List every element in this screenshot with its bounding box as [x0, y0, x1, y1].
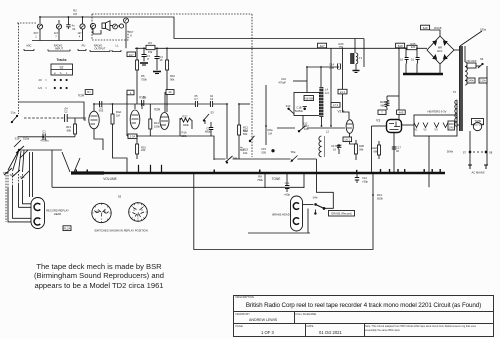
svg-text:R2: R2	[73, 9, 77, 13]
svg-text:S4a: S4a	[233, 156, 238, 160]
svg-text:RECORD REPLAY: RECORD REPLAY	[46, 209, 69, 213]
svg-text:S13: S13	[286, 104, 291, 108]
svg-text:R3: R3	[148, 41, 152, 45]
svg-text:240v: 240v	[468, 79, 474, 83]
svg-text:1M: 1M	[116, 113, 120, 117]
svg-text:=: =	[45, 79, 47, 82]
svg-text:C10: C10	[281, 77, 286, 81]
svg-text:V3: V3	[376, 119, 380, 123]
svg-text:b: b	[141, 208, 143, 212]
svg-text:S1b: S1b	[15, 137, 20, 141]
svg-text:a: a	[133, 209, 135, 212]
svg-text:4A5: 4A5	[399, 111, 404, 115]
svg-text:c: c	[101, 218, 103, 221]
svg-text:1/4: 1/4	[325, 91, 329, 95]
svg-text:R13: R13	[66, 125, 71, 129]
svg-text:005: 005	[330, 66, 335, 70]
svg-text:183a: 183a	[480, 28, 486, 32]
svg-text:2-3A: 2-3A	[130, 135, 136, 139]
svg-text:240: 240	[449, 125, 454, 129]
svg-text:L1: L1	[116, 44, 119, 48]
svg-text:02: 02	[396, 149, 399, 153]
svg-text:HEATERS 6-3V: HEATERS 6-3V	[428, 110, 447, 114]
svg-text:4n: 4n	[72, 24, 75, 28]
svg-text:S7: S7	[463, 151, 467, 155]
svg-text:W1A8: W1A8	[434, 26, 442, 30]
svg-text:21:1: 21:1	[340, 90, 346, 94]
svg-text:C14: C14	[329, 63, 334, 67]
svg-text:6K7: 6K7	[129, 30, 134, 34]
svg-text:AC MAINS: AC MAINS	[472, 171, 485, 175]
svg-text:470pF: 470pF	[278, 80, 286, 84]
svg-text:EC1: EC1	[437, 49, 443, 53]
svg-text:R24: R24	[380, 100, 385, 104]
svg-text:750k: 750k	[141, 77, 147, 81]
svg-text:R1: R1	[87, 90, 91, 94]
svg-text:16: 16	[400, 58, 403, 62]
svg-text:T2: T2	[453, 90, 457, 94]
svg-text:4: 4	[79, 34, 81, 38]
svg-text:V1: V1	[414, 128, 418, 132]
svg-text:500Mu: 500Mu	[295, 109, 304, 113]
svg-text:TONE: TONE	[272, 177, 281, 181]
svg-text:4A7: 4A7	[320, 44, 325, 48]
svg-text:V2 B: V2 B	[338, 110, 345, 114]
svg-text:BRAKE HEAD: BRAKE HEAD	[272, 213, 289, 217]
svg-text:90k: 90k	[170, 77, 175, 81]
svg-text:L6:1: L6:1	[345, 138, 351, 142]
svg-text:Tracks: Tracks	[56, 58, 66, 62]
svg-text:R20: R20	[339, 42, 344, 46]
svg-text:R13: R13	[243, 129, 248, 133]
svg-text:C6: C6	[143, 96, 147, 100]
svg-text:50Hz: 50Hz	[447, 150, 454, 154]
svg-text:5A8: 5A8	[398, 44, 403, 48]
svg-text:500k: 500k	[377, 196, 383, 200]
svg-text:R25: R25	[411, 42, 416, 46]
svg-text:16: 16	[411, 58, 414, 62]
svg-text:R26: R26	[449, 122, 454, 126]
svg-text:=: =	[45, 87, 47, 90]
svg-text:.04: .04	[64, 107, 68, 111]
svg-text:15k: 15k	[148, 50, 153, 54]
svg-text:L7:1: L7:1	[333, 103, 339, 107]
svg-text:S4b: S4b	[313, 196, 318, 200]
svg-text:S6: S6	[480, 57, 484, 61]
svg-text:16: 16	[333, 148, 336, 152]
svg-text:R14: R14	[154, 121, 159, 125]
svg-text:R4A: R4A	[116, 110, 121, 114]
svg-text:R28: R28	[359, 144, 364, 148]
svg-text:S3: S3	[210, 111, 214, 115]
svg-text:50k: 50k	[243, 132, 248, 136]
svg-text:820k: 820k	[183, 123, 189, 127]
svg-text:S2: S2	[60, 66, 64, 70]
svg-text:68k: 68k	[67, 128, 72, 132]
svg-text:1k7: 1k7	[54, 31, 59, 35]
svg-text:R17: R17	[304, 124, 309, 128]
svg-text:16: 16	[160, 58, 163, 62]
svg-text:7: 7	[55, 34, 57, 38]
svg-text:680p: 680p	[205, 130, 211, 134]
svg-text:220: 220	[411, 45, 416, 49]
svg-text:S8: S8	[489, 151, 493, 155]
svg-text:470Mu: 470Mu	[40, 139, 49, 143]
svg-text:C1: C1	[42, 130, 46, 134]
svg-text:MIC: MIC	[27, 44, 32, 48]
svg-text:TAPE: TAPE	[474, 119, 481, 123]
svg-text:V1A: V1A	[78, 94, 85, 98]
svg-text:V2: V2	[423, 128, 427, 132]
svg-text:V3: V3	[434, 128, 438, 132]
svg-text:1M: 1M	[268, 131, 272, 135]
svg-text:C15: C15	[261, 147, 266, 151]
svg-text:INPUT: INPUT	[55, 47, 63, 51]
svg-text:MR: MR	[438, 46, 442, 50]
svg-text:005: 005	[262, 150, 267, 154]
svg-text:R27: R27	[183, 115, 188, 119]
svg-text:S5a: S5a	[291, 150, 296, 154]
svg-text:PU: PU	[82, 44, 86, 48]
svg-text:C12: C12	[362, 176, 367, 180]
svg-text:10k: 10k	[243, 151, 248, 155]
svg-text:100k: 100k	[154, 124, 160, 128]
svg-text:05: 05	[195, 94, 198, 98]
svg-text:750k: 750k	[257, 178, 263, 182]
svg-text:S1a: S1a	[11, 111, 16, 115]
svg-text:+50p: +50p	[362, 179, 369, 183]
svg-text:L2: L2	[326, 130, 329, 134]
svg-text:1/4: 1/4	[38, 86, 42, 90]
svg-text:R19: R19	[243, 148, 248, 152]
svg-text:20: 20	[39, 78, 42, 82]
svg-text:S2a: S2a	[10, 173, 15, 177]
svg-text:22k: 22k	[141, 148, 146, 152]
svg-text:VOLUME: VOLUME	[103, 177, 116, 181]
svg-text:ERASE (Record): ERASE (Record)	[331, 212, 351, 216]
svg-text:c: c	[137, 217, 139, 220]
svg-text:HEAD: HEAD	[54, 212, 62, 216]
svg-text:R5: R5	[141, 74, 145, 78]
svg-text:P1a: P1a	[3, 171, 8, 175]
svg-text:100: 100	[304, 127, 309, 131]
svg-text:MOTOR: MOTOR	[473, 122, 483, 126]
svg-text:6K7: 6K7	[34, 31, 39, 35]
svg-text:R6a: R6a	[268, 128, 273, 132]
svg-text:04: 04	[210, 94, 213, 98]
svg-text:.04: .04	[72, 27, 76, 31]
svg-text:005: 005	[99, 109, 104, 113]
svg-text:C11: C11	[285, 181, 290, 185]
svg-text:1M: 1M	[73, 12, 77, 16]
svg-text:SWITCHES SHOWN IN REPLAY POSIT: SWITCHES SHOWN IN REPLAY POSITION	[94, 229, 147, 233]
svg-text:75k: 75k	[339, 45, 344, 49]
svg-text:R8: R8	[258, 175, 262, 179]
svg-text:2A7: 2A7	[129, 53, 134, 57]
svg-text:4A: 4A	[168, 90, 171, 94]
svg-text:220k: 220k	[181, 134, 187, 138]
svg-text:R10: R10	[170, 74, 175, 78]
svg-text:S10a: S10a	[23, 137, 30, 141]
svg-text:C17: C17	[396, 146, 401, 150]
svg-text:b: b	[104, 209, 106, 213]
svg-text:ELEC: ELEC	[371, 146, 378, 150]
svg-text:1k7: 1k7	[77, 31, 82, 35]
svg-text:110v: 110v	[480, 79, 486, 83]
svg-text:+60p: +60p	[284, 193, 291, 197]
svg-text:L4: L4	[325, 88, 328, 92]
svg-text:S3: S3	[118, 195, 122, 199]
svg-text:V2A: V2A	[154, 108, 161, 112]
svg-text:680: 680	[381, 103, 386, 107]
svg-text:6A8: 6A8	[423, 26, 428, 30]
svg-text:8: 8	[130, 33, 132, 37]
svg-text:T1: T1	[359, 56, 363, 60]
svg-text:39k: 39k	[359, 148, 364, 152]
svg-text:RL2A: RL2A	[64, 227, 71, 231]
svg-text:680: 680	[374, 149, 379, 153]
svg-text:C17: C17	[331, 144, 336, 148]
svg-text:S9a: S9a	[20, 175, 25, 179]
svg-text:1: 1	[35, 34, 37, 38]
svg-text:ON-OFF: ON-OFF	[466, 59, 477, 63]
svg-text:OUTPUT: OUTPUT	[94, 47, 105, 51]
svg-text:R18 56K: R18 56K	[303, 96, 314, 100]
svg-text:R13: R13	[377, 193, 382, 197]
